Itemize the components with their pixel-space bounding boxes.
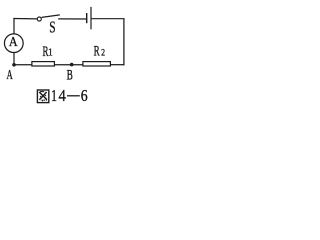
svg-text:A: A [9,33,18,49]
label R1 [42,43,52,60]
wire: top horizontal, corner to switch [13,18,37,20]
label R2 [94,42,105,59]
ammeter A (meter body) [4,34,23,53]
switch S blade (lifted arm) [42,15,60,18]
battery cell: short plate (negative) [86,13,88,23]
svg-text:2: 2 [101,47,105,58]
svg-text:4: 4 [59,87,67,105]
wire: right vertical down to R2 side [123,18,125,65]
resistor R2 (box) [83,62,111,66]
svg-text:A: A [6,67,13,83]
svg-text:B: B [67,66,73,83]
caption hanzi "tu" (figure), drawn strokes [37,90,48,103]
wire: R1 right lead to R2 left lead through node B [54,64,83,66]
svg-text:S: S [49,19,55,38]
svg-text:R: R [94,42,101,59]
wire: left vertical, corner down to ammeter top [13,18,15,34]
svg-text:1: 1 [51,87,57,105]
svg-text:1: 1 [48,47,53,59]
battery cell: long plate (positive) [90,7,92,29]
wire: node A to R1 left lead [13,64,32,66]
caption dash [67,95,80,97]
wire: battery to top-right corner [92,18,125,20]
svg-text:6: 6 [81,88,88,105]
switch S (open): pivot contact circle [37,17,41,21]
wire: switch to battery [58,18,86,20]
node A junction dot [12,63,16,67]
node B junction dot [70,63,74,67]
wire: R2 right lead to bottom-right corner [110,64,124,66]
resistor R1 (box) [32,62,55,66]
wire: ammeter bottom down to node A [13,53,15,65]
